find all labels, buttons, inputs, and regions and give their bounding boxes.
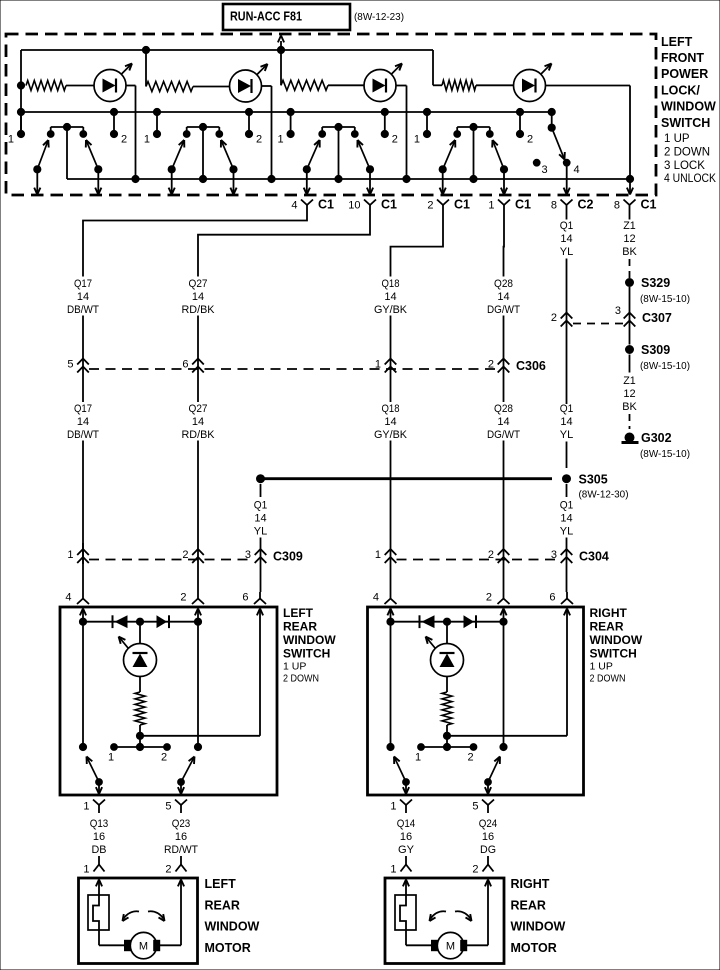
svg-text:16: 16 (482, 831, 494, 843)
svg-text:Q28: Q28 (494, 403, 513, 415)
wire Z1 to C307 (629, 287, 631, 330)
svg-text:DB: DB (92, 844, 107, 856)
svg-text:8: 8 (551, 199, 557, 211)
svg-text:14: 14 (560, 233, 572, 245)
resistor illumination 1 (26, 81, 94, 91)
wire Q27 upper segment (197, 316, 199, 403)
wire label Q17 14 DB/WT lower (67, 403, 99, 441)
right rear window switch box (368, 607, 584, 795)
svg-text:8: 8 (614, 199, 620, 211)
lock switch pivot (548, 108, 555, 131)
svg-text:C1: C1 (318, 198, 334, 212)
connector C306 chevron Q18 (375, 359, 396, 373)
wire top bar right switch (387, 618, 507, 625)
svg-text:Q14: Q14 (397, 818, 416, 830)
svg-text:RIGHT: RIGHT (511, 877, 550, 891)
svg-text:1 UP: 1 UP (590, 660, 613, 672)
svg-text:1: 1 (375, 549, 381, 561)
wire label Q27 14 RD/BK lower (182, 403, 216, 441)
svg-text:C1: C1 (454, 198, 470, 212)
down arm right switch (485, 757, 500, 795)
connector C306 chevron Q28 (488, 359, 509, 373)
wire breaker to motor left (99, 930, 125, 945)
svg-text:Q1: Q1 (560, 499, 574, 511)
connector C304 label (579, 550, 609, 564)
pin 6 entry right box (549, 592, 573, 736)
switch 3 common contacts (319, 123, 358, 179)
svg-text:M: M (139, 941, 148, 953)
svg-text:4 UNLOCK: 4 UNLOCK (664, 173, 716, 185)
wire Z1 from C1 pin 8 (629, 213, 631, 220)
svg-text:2: 2 (551, 312, 557, 324)
svg-text:DG: DG (480, 844, 496, 856)
svg-text:GY/BK: GY/BK (374, 304, 408, 316)
contact 1 of up/down switch 1 (8, 112, 25, 145)
wire YL left to connector (260, 538, 262, 593)
svg-text:14: 14 (192, 291, 204, 303)
svg-text:(8W-12-23): (8W-12-23) (354, 11, 404, 23)
contact 2 of up/down switch 4 (516, 108, 533, 145)
svg-text:BK: BK (622, 401, 637, 413)
connector C309 pin 2 chevron (182, 549, 203, 563)
lock contact 4 (563, 159, 579, 194)
wire label Q1 14 YL left branch (254, 499, 268, 537)
wire breaker to motor right (406, 930, 432, 945)
svg-text:10: 10 (348, 199, 360, 211)
wire motor to pin 2 right (467, 880, 491, 946)
wire C1 pin 2 to Q18 column (391, 213, 444, 277)
svg-text:SWITCH: SWITCH (283, 647, 330, 661)
connector C1 pin 10 (348, 198, 397, 214)
svg-text:RUN-ACC F81: RUN-ACC F81 (230, 9, 302, 24)
pin 1 entry left motor (83, 856, 104, 876)
svg-text:1: 1 (390, 801, 396, 813)
svg-text:DG/WT: DG/WT (487, 429, 520, 441)
wire Q17 upper segment (82, 316, 84, 403)
svg-text:Q18: Q18 (382, 278, 400, 290)
svg-text:MOTOR: MOTOR (511, 941, 557, 955)
svg-text:Q23: Q23 (172, 818, 191, 830)
wire label Q17 14 DB/WT upper (67, 278, 99, 316)
svg-text:1: 1 (144, 133, 150, 145)
svg-text:C307: C307 (642, 311, 672, 325)
diode right right switch (464, 615, 477, 628)
connector C1 pin 1 (488, 198, 531, 214)
wire Q1 middle segment (566, 259, 568, 307)
contact 2 of up/down switch 2 (245, 108, 262, 145)
pin 4 entry left box (65, 592, 89, 622)
svg-text:5: 5 (67, 359, 73, 371)
diode left left switch (113, 615, 128, 628)
pin 6 entry left box (242, 592, 266, 736)
svg-text:Q18: Q18 (382, 403, 400, 415)
svg-text:REAR: REAR (283, 620, 317, 634)
connector C2 pin 8 (551, 198, 594, 214)
switch 1 up arm (34, 140, 49, 195)
svg-text:16: 16 (400, 831, 412, 843)
svg-text:1: 1 (83, 864, 89, 876)
connector C304 dashed line (397, 559, 561, 561)
wire motor to pin 2 left (160, 880, 184, 946)
motor M right (432, 932, 467, 958)
connector C306 dashed line (89, 368, 497, 370)
resistor illumination 2 (146, 82, 230, 92)
node resistor 3 feed (277, 46, 284, 85)
svg-text:2 DOWN: 2 DOWN (590, 672, 626, 684)
svg-text:2: 2 (467, 752, 473, 764)
svg-text:C309: C309 (273, 550, 303, 564)
svg-text:WINDOW: WINDOW (511, 920, 566, 934)
connector C1 pin 4 (291, 198, 334, 214)
reference G302 (8W-15-10) (640, 448, 690, 460)
svg-text:LEFT: LEFT (661, 35, 693, 49)
svg-text:YL: YL (560, 525, 574, 537)
wire Q18 upper segment (390, 316, 392, 403)
svg-text:2: 2 (486, 592, 492, 604)
contact 2 of up/down switch 3 (381, 108, 398, 145)
bus wire switch common (21, 111, 552, 113)
left front power lock/window switch dashed box (6, 34, 656, 195)
svg-text:2: 2 (165, 864, 171, 876)
svg-text:WINDOW: WINDOW (661, 100, 716, 114)
up arm left switch (87, 757, 103, 795)
connector C304 pin 2 chevron (488, 549, 509, 563)
right rear window motor box (385, 878, 504, 964)
switch 4 down arm (492, 140, 507, 195)
svg-text:GY: GY (398, 844, 415, 856)
svg-text:Q1: Q1 (254, 499, 268, 511)
svg-text:14: 14 (560, 416, 572, 428)
wire Q28 lower segment (503, 441, 505, 593)
svg-text:14: 14 (384, 416, 396, 428)
circuit breaker left motor (88, 880, 109, 931)
wire C1 pin 4 to Q17 column (83, 213, 307, 277)
svg-text:5: 5 (165, 801, 171, 813)
wire Z1 dashed stub to ground (629, 414, 631, 429)
svg-text:DG/WT: DG/WT (487, 304, 520, 316)
svg-text:DB/WT: DB/WT (67, 304, 99, 316)
wire label Q24 16 DG (479, 818, 498, 856)
svg-text:G302: G302 (641, 431, 672, 445)
svg-text:REAR: REAR (511, 898, 546, 912)
pin 2 entry right motor (472, 856, 493, 876)
connector C306 chevron Q17 (67, 359, 88, 373)
svg-text:14: 14 (560, 512, 572, 524)
switch 4 up arm (439, 140, 455, 195)
svg-text:(8W-12-30): (8W-12-30) (579, 489, 629, 501)
svg-text:2 DOWN: 2 DOWN (283, 672, 319, 684)
svg-text:WINDOW: WINDOW (283, 633, 336, 647)
resistor illumination 3 (281, 80, 364, 90)
switch 3 up arm (303, 140, 320, 195)
wire LED3 cathode (396, 86, 407, 180)
wire YL stub below S305 left (260, 484, 262, 497)
wire C1 pin 10 to Q27 column (198, 213, 370, 277)
switch 2 up arm (168, 140, 184, 195)
svg-text:Z1: Z1 (623, 375, 636, 387)
wire Z1 lower segment (629, 355, 631, 373)
svg-text:MOTOR: MOTOR (205, 941, 251, 955)
svg-text:1: 1 (390, 864, 396, 876)
connector C307 pin 2 chevron (551, 306, 572, 330)
svg-text:YL: YL (560, 429, 574, 441)
svg-text:1: 1 (83, 801, 89, 813)
svg-text:1: 1 (415, 752, 421, 764)
pin 1 entry right motor (390, 856, 411, 876)
svg-text:2: 2 (180, 592, 186, 604)
wire label Q1 14 YL middle (560, 403, 574, 441)
label LEFT REAR WINDOW MOTOR (205, 877, 260, 955)
wire top feed (21, 50, 442, 85)
svg-text:Q13: Q13 (90, 818, 109, 830)
svg-text:2: 2 (392, 133, 398, 145)
wire resistor to pin 6 right (443, 732, 567, 739)
label RIGHT REAR WINDOW SWITCH (590, 606, 643, 684)
svg-text:4: 4 (65, 592, 71, 604)
svg-text:RD/WT: RD/WT (164, 844, 198, 856)
wire label Q13 16 DB (90, 818, 109, 856)
label RIGHT REAR WINDOW MOTOR (511, 877, 566, 955)
down arm left switch (178, 757, 195, 795)
svg-text:12: 12 (623, 233, 635, 245)
svg-text:16: 16 (175, 831, 187, 843)
LED illumination 4 (514, 64, 552, 102)
svg-text:S329: S329 (641, 276, 670, 290)
connector C309 pin 3 chevron (245, 549, 266, 563)
switch 1 down arm (86, 140, 102, 195)
rotation arrows right motor (430, 911, 472, 921)
svg-text:RIGHT: RIGHT (590, 606, 628, 620)
wire label Q18 14 GY/BK upper (374, 278, 408, 316)
LED right switch (426, 622, 464, 677)
svg-text:3: 3 (542, 164, 548, 176)
down arrow LED return to C1 pin 8 (627, 179, 633, 195)
svg-text:C2: C2 (578, 198, 594, 212)
contact 1 of up/down switch 4 (414, 108, 431, 145)
svg-text:M: M (446, 941, 455, 953)
svg-text:Q28: Q28 (494, 278, 513, 290)
resistor left switch (135, 677, 145, 736)
connector C309 pin 1 chevron (67, 543, 88, 564)
wire label Q1 14 YL right branch (560, 499, 574, 537)
svg-text:14: 14 (254, 512, 266, 524)
svg-text:1: 1 (67, 549, 73, 561)
bus wire switch output (67, 175, 634, 182)
svg-text:1: 1 (488, 199, 494, 211)
wire left branch node (17, 50, 24, 134)
svg-text:4: 4 (291, 199, 297, 211)
svg-text:12: 12 (623, 388, 635, 400)
svg-text:2: 2 (256, 133, 262, 145)
wire LED4 cathode (545, 86, 630, 180)
LED left switch (119, 622, 157, 677)
svg-text:POWER: POWER (661, 67, 708, 81)
diode left right switch (420, 615, 435, 628)
svg-text:LEFT: LEFT (205, 877, 237, 891)
svg-text:14: 14 (77, 291, 89, 303)
pin 2 entry right box (486, 592, 510, 622)
LED illumination 2 (230, 64, 268, 102)
wire label Q28 14 DG/WT lower (487, 403, 520, 441)
svg-text:2: 2 (121, 133, 127, 145)
svg-text:Q17: Q17 (74, 278, 92, 290)
pin 4 entry right box (373, 592, 397, 622)
svg-text:(8W-15-10): (8W-15-10) (640, 360, 690, 372)
svg-text:1: 1 (414, 133, 420, 145)
wire LED2 cathode (262, 86, 272, 179)
wire label Q1 14 YL upper (560, 220, 574, 258)
connector C1 pin 8 (614, 198, 657, 214)
label LEFT FRONT POWER LOCK/WINDOW SWITCH (661, 35, 716, 185)
wire label Z1 12 BK lower (622, 375, 637, 413)
svg-text:Z1: Z1 (623, 220, 636, 232)
wire Q27 lower segment (197, 441, 199, 593)
svg-text:2: 2 (182, 549, 188, 561)
pin 5 exit left box (165, 800, 187, 814)
pivot left right switch (387, 622, 394, 751)
wire Q1 lower segment (566, 330, 568, 404)
left rear window switch box (60, 607, 277, 795)
reference S309 (8W-15-10) (640, 360, 690, 372)
pin 2 entry left box (180, 592, 204, 622)
wire Z1 dashed stub (629, 259, 631, 278)
switch 3 down arm (357, 140, 373, 195)
svg-text:14: 14 (384, 291, 396, 303)
wire label Q23 16 RD/WT (164, 818, 198, 856)
contact 2 of up/down switch 1 (110, 108, 127, 145)
wire LED1 cathode (126, 86, 136, 180)
connector C307 dashed line (573, 323, 623, 325)
svg-text:2: 2 (472, 864, 478, 876)
svg-text:2: 2 (527, 133, 533, 145)
common contacts left switch (108, 736, 170, 764)
pivot left left switch (79, 622, 86, 751)
svg-text:RD/BK: RD/BK (182, 304, 216, 316)
wire Q18 lower segment (390, 441, 392, 593)
resistor illumination 4 (442, 80, 514, 90)
wire YL stub below S305 right (566, 484, 568, 497)
reference (8W-12-23) (354, 11, 404, 23)
svg-text:YL: YL (254, 525, 268, 537)
svg-text:DB/WT: DB/WT (67, 429, 99, 441)
svg-text:1: 1 (277, 133, 283, 145)
pin 1 exit left box (83, 800, 105, 814)
svg-text:2 DOWN: 2 DOWN (664, 147, 710, 159)
svg-text:(8W-15-10): (8W-15-10) (640, 448, 690, 460)
svg-text:6: 6 (242, 592, 248, 604)
lock switch arm (552, 128, 565, 160)
switch 1 common contacts (47, 123, 86, 179)
pin 2 entry left motor (165, 856, 186, 876)
svg-text:WINDOW: WINDOW (205, 920, 260, 934)
svg-text:Q1: Q1 (560, 403, 574, 415)
svg-text:YL: YL (560, 246, 574, 258)
wire Q1 from C2 pin 8 (566, 213, 568, 220)
LED illumination 1 (94, 64, 132, 102)
diode right left switch (157, 615, 170, 628)
connector C304 pin 1 chevron (375, 549, 396, 563)
lock contact 3 (533, 159, 547, 176)
common contacts right switch (415, 736, 477, 764)
reference S329 (8W-15-10) (640, 293, 690, 305)
svg-text:FRONT: FRONT (661, 51, 704, 65)
svg-text:RD/BK: RD/BK (182, 429, 216, 441)
svg-text:16: 16 (93, 831, 105, 843)
wire label Q18 14 GY/BK lower (374, 403, 408, 441)
motor M left (125, 932, 160, 958)
svg-text:2: 2 (161, 752, 167, 764)
wire label Z1 12 BK upper (622, 220, 637, 258)
connector C304 pin 3 chevron (551, 549, 572, 563)
connector C309 dashed line (89, 559, 254, 561)
connector C306 chevron Q27 (182, 359, 203, 373)
svg-text:2: 2 (427, 199, 433, 211)
splice S329 (626, 276, 671, 290)
svg-text:(8W-15-10): (8W-15-10) (640, 293, 690, 305)
connector C307 pin 3 chevron (615, 305, 635, 327)
left rear window motor box (79, 878, 198, 964)
svg-text:WINDOW: WINDOW (590, 633, 643, 647)
svg-text:Q27: Q27 (189, 278, 208, 290)
svg-text:6: 6 (549, 592, 555, 604)
svg-text:4: 4 (373, 592, 379, 604)
svg-text:1: 1 (8, 133, 14, 145)
svg-text:3 LOCK: 3 LOCK (664, 160, 705, 172)
svg-text:Q1: Q1 (560, 220, 574, 232)
wire label Q28 14 DG/WT upper (487, 278, 520, 316)
wire Z1 below C307 (629, 330, 631, 345)
svg-text:6: 6 (182, 359, 188, 371)
wire C1 pin 1 to Q28 column (503, 213, 506, 277)
node resistor 2 feed (142, 46, 149, 86)
svg-text:1 UP: 1 UP (283, 660, 306, 672)
svg-text:C1: C1 (515, 198, 531, 212)
switch 2 common contacts (183, 123, 222, 179)
splice bus S305 (257, 473, 608, 487)
svg-text:C1: C1 (641, 198, 657, 212)
svg-text:S305: S305 (579, 473, 608, 487)
svg-text:GY/BK: GY/BK (374, 429, 408, 441)
svg-text:LEFT: LEFT (283, 606, 314, 620)
contact 1 of up/down switch 2 (144, 108, 161, 145)
contact 1 of up/down switch 3 (277, 108, 294, 145)
label LEFT REAR WINDOW SWITCH (283, 606, 336, 684)
svg-text:Q24: Q24 (479, 818, 498, 830)
svg-text:14: 14 (77, 416, 89, 428)
svg-text:14: 14 (192, 416, 204, 428)
svg-text:4: 4 (574, 164, 580, 176)
wire Q17 lower segment (82, 441, 84, 593)
splice S309 (626, 343, 671, 357)
reference S305 (8W-12-30) (579, 489, 629, 501)
switch 4 common contacts (454, 123, 493, 179)
svg-text:Q17: Q17 (74, 403, 92, 415)
LED illumination 3 (364, 64, 402, 102)
circuit breaker right motor (395, 880, 416, 931)
svg-text:BK: BK (622, 246, 637, 258)
svg-text:1: 1 (108, 752, 114, 764)
connector C306 label (516, 359, 546, 373)
wire top bar left switch (79, 618, 201, 625)
svg-text:LOCK/: LOCK/ (661, 84, 700, 98)
svg-text:1 UP: 1 UP (664, 133, 690, 145)
pivot right right switch (500, 622, 507, 751)
pivot right left switch (194, 622, 201, 751)
connector C309 label (273, 550, 303, 564)
wire label Q14 16 GY (397, 818, 416, 856)
wire Q1 to splice S305 (566, 442, 568, 469)
svg-text:14: 14 (497, 416, 509, 428)
